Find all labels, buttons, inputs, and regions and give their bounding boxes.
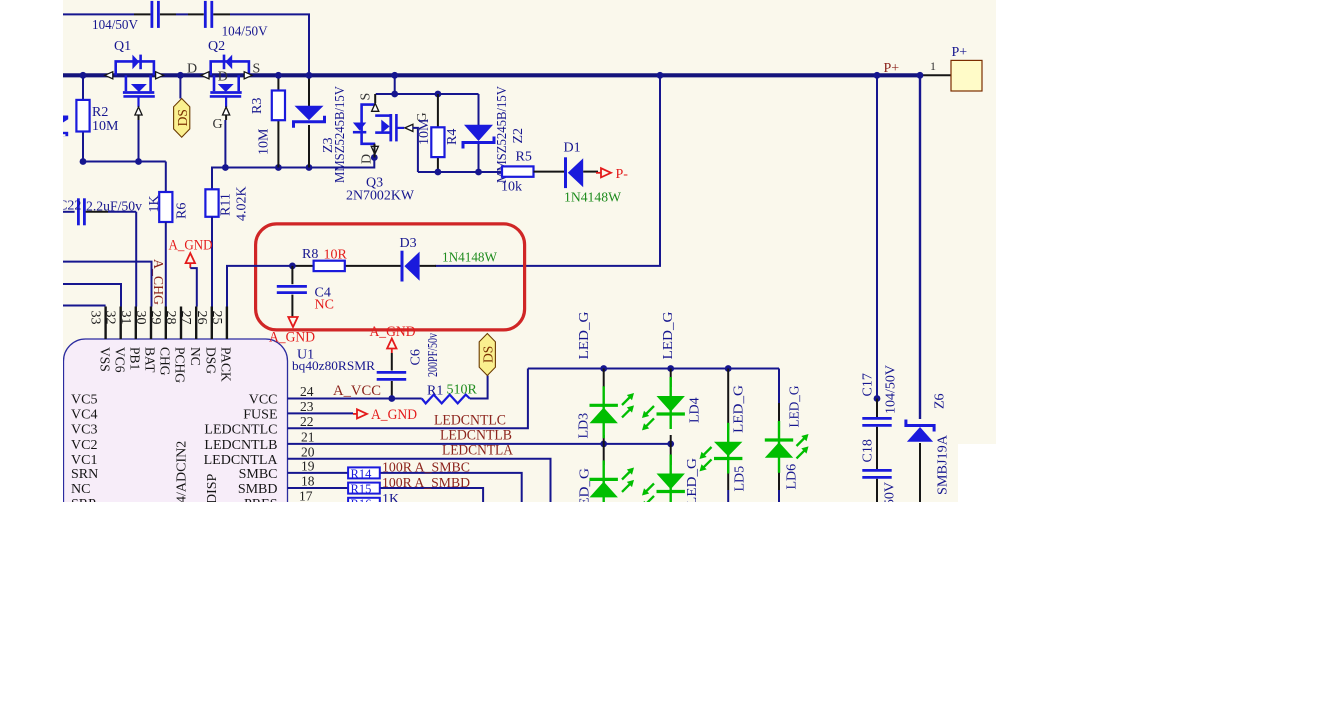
svg-text:C17: C17 <box>861 373 876 396</box>
LED row2 left <box>603 460 605 512</box>
schematic sheet background <box>63 0 996 502</box>
svg-text:1N4148W: 1N4148W <box>442 251 498 266</box>
wire D node to DS flag <box>179 75 181 98</box>
wire pin21 LEDCNTLB rail <box>288 443 671 445</box>
svg-text:G: G <box>213 117 223 132</box>
svg-text:26: 26 <box>194 311 209 325</box>
svg-text:R3: R3 <box>250 98 265 114</box>
svg-text:FUSE: FUSE <box>243 407 277 422</box>
svg-text:bq40z80RSMR: bq40z80RSMR <box>292 358 375 373</box>
svg-text:DSG: DSG <box>204 347 219 374</box>
wire R11 to pin26 <box>211 217 213 307</box>
resistor R3 <box>272 91 285 121</box>
svg-text:DS: DS <box>481 346 496 363</box>
svg-text:DS: DS <box>175 109 190 126</box>
LED row2 right <box>670 455 672 507</box>
wire pin22 LEDCNTLC <box>288 369 528 429</box>
wire LD4 leads <box>670 369 672 388</box>
capacitor C4 NC <box>291 266 293 284</box>
wire Q2 gate <box>225 115 227 120</box>
svg-text:19: 19 <box>301 458 315 473</box>
wire Q3 drain <box>374 144 376 158</box>
wire LED top rail <box>528 368 779 370</box>
power flag DS lower <box>479 334 495 376</box>
wire R6 to pin29 <box>165 222 167 307</box>
svg-text:A_GND: A_GND <box>269 330 315 346</box>
svg-text:C6: C6 <box>409 349 424 365</box>
svg-text:LD6: LD6 <box>785 464 800 490</box>
svg-text:104/50V: 104/50V <box>222 25 268 40</box>
svg-text:LEDCNTLA: LEDCNTLA <box>442 443 514 459</box>
svg-text:SRN: SRN <box>71 467 98 482</box>
svg-text:LEDCNTLC: LEDCNTLC <box>434 413 506 429</box>
wire LD6 column from rail <box>778 369 780 404</box>
svg-text:PB1: PB1 <box>128 347 143 370</box>
resistor R5 <box>502 166 534 176</box>
svg-text:R15: R15 <box>351 482 372 496</box>
wire C22 left <box>63 211 75 213</box>
component fragment at sheet left edge <box>63 116 68 123</box>
wire D1 to P- <box>583 171 598 173</box>
resistor R6 <box>159 192 172 222</box>
svg-text:BAT: BAT <box>143 347 158 373</box>
svg-text:LED_G: LED_G <box>685 458 700 506</box>
svg-text:10k: 10k <box>501 180 522 195</box>
svg-text:31: 31 <box>118 311 133 325</box>
svg-text:A_GND: A_GND <box>370 324 416 340</box>
wire R8 leads <box>292 265 313 267</box>
svg-text:VC2: VC2 <box>71 438 97 453</box>
wire Q2 gate row y167 <box>212 158 374 190</box>
svg-text:SMBJ19A: SMBJ19A <box>936 434 951 495</box>
wire main power bus P+ <box>63 73 920 77</box>
svg-text:200PF/50v: 200PF/50v <box>425 333 440 377</box>
svg-text:21: 21 <box>301 429 315 444</box>
wire Z2 column <box>478 94 480 125</box>
resistor R15 <box>348 483 380 494</box>
svg-text:100R A_SMBC: 100R A_SMBC <box>382 461 470 476</box>
highlight box (red rounded rectangle) <box>256 224 525 330</box>
svg-text:LED_G: LED_G <box>577 312 592 360</box>
transistor Q2 <box>211 61 249 75</box>
svg-text:LED_G: LED_G <box>788 386 803 428</box>
svg-text:1N4148W: 1N4148W <box>564 191 622 206</box>
wire LD5 leads <box>727 369 729 431</box>
svg-text:10M: 10M <box>417 118 432 145</box>
LED LD4 <box>670 377 672 429</box>
wire C17 to C18 <box>876 427 878 469</box>
pin stubs chip top edge <box>104 307 106 340</box>
svg-text:NC: NC <box>71 482 90 497</box>
wire R3 column <box>277 75 279 90</box>
svg-text:D3: D3 <box>400 236 417 251</box>
wire to pin32 VC6 <box>63 284 121 307</box>
wire port stub <box>920 74 951 76</box>
wire gate row y161 <box>83 161 166 163</box>
transistor Q1 <box>116 61 154 75</box>
svg-text:P+: P+ <box>884 61 900 76</box>
svg-text:R8: R8 <box>302 247 318 262</box>
wire pin18 SMBD <box>288 487 349 489</box>
svg-text:104/50V: 104/50V <box>92 18 138 33</box>
svg-text:VC3: VC3 <box>71 422 97 437</box>
svg-text:P-: P- <box>616 167 629 182</box>
svg-text:A_VCC: A_VCC <box>333 383 381 399</box>
svg-text:R5: R5 <box>516 150 532 165</box>
capacitor top-left 104/50V <box>150 1 153 28</box>
svg-text:LEDCNTLB: LEDCNTLB <box>440 428 512 444</box>
wire LD3 row2 leads <box>603 444 605 465</box>
svg-text:VCC: VCC <box>249 393 278 408</box>
wire to pin30 BAT <box>63 262 152 307</box>
svg-text:C18: C18 <box>861 439 876 462</box>
svg-text:2N7002KW: 2N7002KW <box>346 189 415 204</box>
svg-text:R2: R2 <box>92 105 108 120</box>
svg-text:Q1: Q1 <box>114 39 131 54</box>
svg-text:510R: 510R <box>447 383 478 398</box>
wire R5 to D1 <box>534 171 565 173</box>
wire bus to Q3 source <box>394 75 396 94</box>
svg-text:SMBC: SMBC <box>239 467 278 482</box>
capacitor C6 200PF/50v <box>391 353 393 371</box>
svg-text:LD4: LD4 <box>688 397 703 423</box>
svg-text:104/50V: 104/50V <box>884 365 899 414</box>
ground A_GND below C4 <box>288 317 297 327</box>
wire P+ column <box>919 75 921 419</box>
svg-text:D: D <box>360 154 375 164</box>
svg-text:PCHG: PCHG <box>173 347 188 383</box>
capacitor C17 104/50V <box>862 417 891 420</box>
svg-text:P+: P+ <box>952 45 968 60</box>
wire R2 column <box>82 75 84 100</box>
svg-text:NC: NC <box>315 298 334 313</box>
svg-text:VC1: VC1 <box>71 453 97 468</box>
wire pin25 PACK to D3 row <box>227 266 292 307</box>
wire Z6 down <box>919 443 921 502</box>
svg-text:29: 29 <box>148 311 163 325</box>
power flag DS upper <box>174 99 190 138</box>
svg-text:LED_G: LED_G <box>732 385 747 433</box>
wire LD4 row2 leads <box>670 444 672 465</box>
svg-text:NC: NC <box>188 347 203 366</box>
svg-text:10M: 10M <box>92 119 119 134</box>
wire pin23 FUSE to A_GND <box>288 412 354 414</box>
wire R4 column <box>437 94 439 127</box>
svg-text:28: 28 <box>163 311 178 325</box>
svg-text:LEDCNTLA: LEDCNTLA <box>204 453 279 468</box>
wire Q3 top row y94 <box>376 93 479 95</box>
svg-text:LEDCNTLB: LEDCNTLB <box>204 438 277 453</box>
transistor Q3 2N7002KW <box>374 94 376 103</box>
wire bus to C17 <box>876 75 878 398</box>
wire C18 down <box>876 479 878 502</box>
wire Q1 gate <box>138 115 140 120</box>
resistor R4 <box>431 127 444 157</box>
svg-text:CHG: CHG <box>158 347 173 376</box>
svg-text:A_GND: A_GND <box>169 238 213 254</box>
svg-text:D1: D1 <box>564 141 581 156</box>
svg-text:10R: 10R <box>324 248 348 263</box>
svg-text:SMBD: SMBD <box>238 482 278 497</box>
LED LD5 <box>727 423 729 474</box>
svg-text:1: 1 <box>930 59 936 73</box>
svg-text:Q2: Q2 <box>208 39 225 54</box>
zener diode Z3 <box>295 106 324 121</box>
svg-text:S: S <box>253 62 261 77</box>
capacitor top-right 104/50V <box>204 1 207 28</box>
wire pin20 LEDCNTLA <box>288 459 551 502</box>
svg-text:25: 25 <box>209 311 224 325</box>
svg-text:A_GND: A_GND <box>371 407 417 423</box>
svg-text:LD3: LD3 <box>577 413 592 439</box>
svg-text:VC4: VC4 <box>71 407 97 422</box>
svg-text:18: 18 <box>301 474 315 489</box>
wire pin17 PRES <box>288 502 349 504</box>
wire row y172 <box>418 171 502 173</box>
svg-text:100R A_SMBD: 100R A_SMBD <box>382 476 470 491</box>
pin arrows Q1 <box>105 72 113 79</box>
wire pin24 VCC / A_VCC <box>288 398 422 400</box>
diode D1 1N4148W <box>564 157 567 188</box>
svg-text:Z2: Z2 <box>511 128 526 144</box>
wire LD3 leads <box>603 369 605 388</box>
resistor R11 <box>205 189 218 217</box>
wire Z3 column <box>308 75 310 106</box>
svg-text:MMSZ5245B/15V: MMSZ5245B/15V <box>333 86 348 183</box>
mask white regions outside sheet <box>0 0 63 724</box>
svg-text:10M: 10M <box>257 128 272 155</box>
svg-text:R1: R1 <box>427 384 443 399</box>
svg-text:24: 24 <box>300 384 314 399</box>
wire R1 to DS flag <box>470 376 488 399</box>
resistor R2 <box>76 100 89 132</box>
wire top rail y14 <box>63 14 309 75</box>
wire C22 to pin31 <box>86 211 108 213</box>
svg-text:DISP: DISP <box>205 473 220 504</box>
capacitor C18 104/50V <box>862 469 891 472</box>
svg-text:17: 17 <box>299 489 313 504</box>
wire Q3 gate to row y172 <box>413 128 418 172</box>
resistor R1 510R zigzag <box>422 395 470 404</box>
svg-text:D: D <box>187 62 197 77</box>
svg-text:VC6: VC6 <box>112 347 127 373</box>
svg-text:23: 23 <box>300 399 314 414</box>
port P- marker <box>596 172 601 174</box>
resistor R8 <box>314 261 345 271</box>
svg-text:R14: R14 <box>351 467 373 481</box>
pin arrows Q2 <box>201 72 209 79</box>
resistor R16 <box>348 498 380 509</box>
svg-text:20: 20 <box>301 444 315 459</box>
LED LD3 <box>603 386 605 438</box>
svg-text:R11: R11 <box>219 193 234 216</box>
junction dots gate row <box>80 158 87 165</box>
wire pin19 SMBC <box>288 472 349 474</box>
svg-text:D: D <box>218 70 228 85</box>
capacitor C22 2.2uF/50v <box>77 198 80 225</box>
zener diode Z2 <box>464 125 493 141</box>
svg-text:22: 22 <box>300 414 314 429</box>
svg-text:PACK: PACK <box>219 347 234 382</box>
resistor R14 <box>348 467 380 478</box>
svg-text:LD5: LD5 <box>733 466 748 492</box>
svg-text:4/ADCIN2: 4/ADCIN2 <box>175 441 190 503</box>
wire to pin33 VSS <box>63 305 106 307</box>
svg-text:1K: 1K <box>147 195 162 212</box>
svg-text:VC5: VC5 <box>71 393 97 408</box>
svg-text:R6: R6 <box>175 203 190 219</box>
svg-text:30: 30 <box>133 311 148 325</box>
svg-text:Z6: Z6 <box>933 393 948 409</box>
svg-text:R4: R4 <box>445 129 460 145</box>
svg-text:LED_G: LED_G <box>661 312 676 360</box>
LED LD6 <box>778 421 780 473</box>
svg-text:VSS: VSS <box>97 347 112 372</box>
svg-text:32: 32 <box>103 311 118 325</box>
svg-text:33: 33 <box>88 311 103 325</box>
svg-text:LEDCNTLC: LEDCNTLC <box>204 422 277 437</box>
IC U1 bq40z80RSMR body <box>64 339 288 539</box>
wire LD6 leads <box>778 467 780 490</box>
zener diode Z6 SMBJ19A <box>907 427 933 442</box>
svg-text:27: 27 <box>178 311 193 325</box>
diode D3 1N4148W <box>401 251 404 282</box>
wire bus to D3 row <box>435 75 660 266</box>
svg-text:S: S <box>359 93 374 101</box>
svg-text:4.02K: 4.02K <box>235 186 250 221</box>
junction dots on bus <box>80 72 87 79</box>
